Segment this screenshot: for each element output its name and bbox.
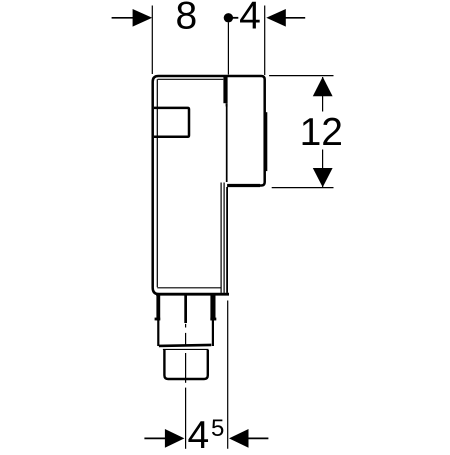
dimension arrow 12-down bbox=[313, 168, 333, 187]
svg-text:4: 4 bbox=[188, 414, 210, 450]
outlet pipe 2 bbox=[164, 350, 207, 379]
seam line continuing down bbox=[226, 106, 228, 182]
cover plate bar on housing right edge bbox=[264, 112, 268, 171]
centerline dash-dot bbox=[185, 324, 187, 328]
extension line 12-bottom (y=187.4) bbox=[272, 187, 334, 189]
dimension stub right of dot bbox=[230, 17, 238, 19]
housing bottom edge thicker overlay bbox=[227, 184, 260, 187]
inner top line bbox=[158, 78, 224, 80]
inner bottom line bbox=[157, 287, 221, 289]
outlet pipe 1 right wall bbox=[210, 296, 215, 321]
dimension arrow 12-up bbox=[313, 77, 333, 96]
centerline solid lower / left extension of bottom dim bbox=[185, 388, 187, 449]
dimension arrow bottom-left bbox=[144, 429, 184, 448]
svg-text:8: 8 bbox=[176, 0, 198, 38]
text halo 12 bbox=[299, 112, 343, 150]
seam bar between tank and housing (thick) bbox=[223, 76, 227, 103]
svg-text:4: 4 bbox=[239, 0, 261, 38]
extension line right (x=265) bbox=[264, 6, 266, 76]
dimension arrow bottom-right bbox=[229, 429, 268, 448]
extension line left (x=152) bbox=[151, 6, 153, 75]
svg-text:12: 12 bbox=[300, 111, 343, 154]
extension line 12-top (y=75.6) bbox=[269, 75, 333, 77]
shoulder between pipe1 and pipe2 bbox=[159, 345, 211, 346]
cistern outer outline: bottom, left, top, housing right, housing bottom bbox=[153, 76, 265, 294]
right wall triple lines below housing bbox=[220, 183, 222, 293]
dimension dot terminator bbox=[224, 13, 233, 22]
svg-text:5: 5 bbox=[211, 415, 224, 442]
flush bend inner edge (center bar) bbox=[184, 296, 187, 324]
dimension line 12 bbox=[322, 77, 324, 187]
extension line from dot (x=228) bbox=[227, 23, 229, 75]
dimension arrow top-right bbox=[266, 9, 305, 27]
dimension arrow top-left bbox=[112, 9, 153, 27]
tank bottom edge overlay bbox=[156, 293, 229, 296]
outlet pipe 1 left wall bbox=[156, 296, 160, 321]
inner left line bbox=[156, 79, 158, 287]
extension line bottom-right (x=227.7) bbox=[227, 301, 229, 449]
left notch (supply connection) bbox=[154, 108, 189, 137]
